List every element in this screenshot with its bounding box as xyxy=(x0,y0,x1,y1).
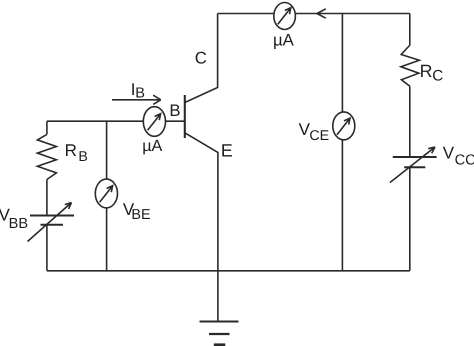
wire meter to base xyxy=(166,120,185,122)
IB current arrow xyxy=(112,95,161,104)
ground xyxy=(200,321,239,323)
source VBB (variable DC supply) xyxy=(30,216,74,225)
wire VBE branch lower xyxy=(106,208,108,271)
svg-text:BE: BE xyxy=(131,207,150,223)
wire left vertical middle xyxy=(46,180,48,216)
svg-text:B: B xyxy=(78,149,87,165)
svg-text:µA: µA xyxy=(273,30,295,49)
svg-text:B: B xyxy=(135,86,145,102)
wire left vertical upper xyxy=(46,121,48,134)
transistor Q1 base bar xyxy=(184,95,186,138)
ammeter M2 (base microammeter) xyxy=(143,107,165,137)
svg-text:R: R xyxy=(420,61,433,81)
wire VCE branch lower xyxy=(341,140,343,271)
ammeter M1 (collector microammeter) xyxy=(274,3,296,30)
svg-text:C: C xyxy=(195,48,207,67)
wire right vertical upper xyxy=(409,14,411,46)
svg-text:CE: CE xyxy=(309,128,329,144)
VBB variability arrow xyxy=(28,203,72,242)
voltmeter VBE meter xyxy=(95,179,117,208)
svg-text:CC: CC xyxy=(455,152,474,168)
wire right vertical lower xyxy=(409,167,411,271)
source VCC (variable DC supply) xyxy=(393,157,437,167)
svg-text:B: B xyxy=(169,101,180,120)
svg-text:µA: µA xyxy=(142,137,162,155)
wire right vertical middle xyxy=(409,86,411,157)
svg-text:V: V xyxy=(443,144,455,163)
wire VBE branch upper xyxy=(106,121,108,179)
resistor RC xyxy=(401,45,419,86)
VCC variability arrow xyxy=(390,147,435,183)
svg-text:R: R xyxy=(65,141,77,160)
svg-text:BB: BB xyxy=(9,216,28,232)
wire left vertical lower xyxy=(46,225,48,271)
resistor RB xyxy=(37,134,56,179)
voltmeter VCE meter xyxy=(333,112,355,140)
wire top right segment xyxy=(295,13,409,15)
svg-text:E: E xyxy=(221,140,233,160)
transistor Q1 emitter lead xyxy=(185,133,218,322)
wire VCE branch upper xyxy=(341,14,343,113)
transistor Q1 collector lead xyxy=(185,14,218,103)
wire bottom xyxy=(47,270,410,272)
wire base node horizontal xyxy=(47,120,143,122)
svg-text:C: C xyxy=(432,68,443,85)
current direction arrow (left-pointing) xyxy=(317,9,326,18)
wire top left segment xyxy=(218,13,274,15)
